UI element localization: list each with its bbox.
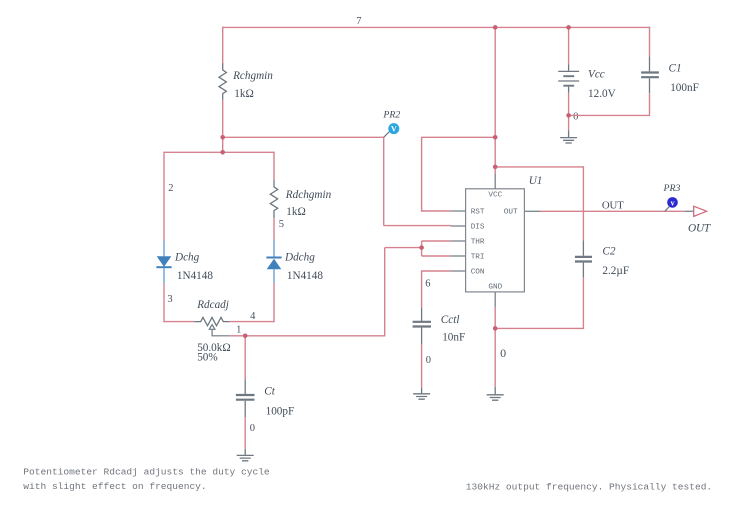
op-amp style IC U1 box — [466, 189, 525, 292]
svg-text:6: 6 — [425, 279, 430, 290]
capacitor Cctl top lead — [421, 307, 423, 321]
wire right branch middle — [273, 218, 275, 240]
pin stub TRI — [451, 255, 466, 257]
wire loop bottom left — [164, 321, 194, 323]
svg-text:THR: THR — [471, 238, 485, 246]
wire 0 net horizontal — [569, 114, 650, 116]
wire C2 column lower — [582, 277, 584, 328]
capacitor Ct bottom lead — [244, 401, 246, 418]
svg-text:OUT: OUT — [602, 199, 624, 211]
battery Vcc top lead — [568, 64, 570, 71]
battery Vcc plates — [558, 70, 579, 72]
wire top rail net 7 — [223, 26, 650, 28]
svg-text:Rdchgmin: Rdchgmin — [285, 189, 332, 201]
pin stub CON — [451, 270, 466, 272]
junction at Ct tap — [243, 334, 248, 339]
pin stub THR — [451, 240, 466, 242]
svg-text:1N4148: 1N4148 — [177, 270, 213, 282]
svg-text:100nF: 100nF — [670, 82, 699, 94]
svg-text:3: 3 — [167, 294, 172, 305]
wire C2 column upper — [582, 166, 584, 240]
svg-text:Vcc: Vcc — [588, 69, 605, 81]
junction RST tap — [493, 135, 498, 140]
svg-text:C1: C1 — [669, 62, 682, 74]
diode Dchg triangle — [157, 256, 172, 267]
diode Dchg anode lead — [163, 241, 165, 257]
diode Ddchg cathode bar — [266, 257, 281, 259]
wire DIS vertical — [383, 137, 385, 226]
svg-text:5: 5 — [279, 219, 284, 230]
pin stub OUT — [524, 210, 540, 212]
probe PR2 tail — [384, 131, 391, 138]
wire left branch upper — [163, 152, 165, 241]
junction GND net — [493, 326, 498, 331]
svg-text:130kHz output frequency. Physi: 130kHz output frequency. Physically test… — [466, 482, 712, 493]
wire top rail left drop to Rchgmin — [222, 27, 224, 64]
svg-text:100pF: 100pF — [266, 406, 295, 418]
pin stub GND — [494, 292, 496, 307]
wire VCC rail vertical — [494, 27, 496, 174]
svg-text:Cctl: Cctl — [441, 314, 460, 326]
wire right branch upper — [273, 152, 275, 181]
wire wiper riser to THR net — [384, 248, 386, 337]
wire CON branch — [422, 271, 451, 307]
svg-text:2: 2 — [168, 183, 173, 194]
pin stub DIS — [451, 225, 466, 227]
svg-text:1kΩ: 1kΩ — [286, 206, 306, 218]
capacitor C1 top lead — [649, 56, 651, 71]
capacitor C2 top lead — [582, 240, 584, 255]
diode Ddchg cathode lead — [273, 240, 275, 257]
diode Dchg cathode lead — [163, 268, 165, 283]
potentiometer Rdcadj wiper arrow — [209, 325, 229, 336]
svg-text:OUT: OUT — [504, 208, 518, 216]
output connector stub — [685, 210, 694, 212]
junction at loop top — [220, 150, 225, 155]
svg-text:2.2µF: 2.2µF — [602, 265, 629, 277]
junction at THR TRI — [419, 245, 424, 250]
svg-text:PR3: PR3 — [663, 183, 681, 194]
capacitor Ct top lead — [244, 379, 246, 394]
battery Vcc bottom lead — [568, 87, 570, 93]
probe PR3 circle — [667, 197, 678, 208]
capacitor C2 plates — [575, 257, 592, 262]
resistor Rchgmin — [219, 63, 226, 99]
junction top rail at VCC column — [493, 25, 498, 30]
capacitor Ct plates — [236, 395, 255, 400]
svg-text:OUT: OUT — [688, 223, 711, 235]
svg-text:10nF: 10nF — [442, 332, 465, 344]
wire net2 horizontal to DIS corner — [223, 136, 384, 138]
junction VCC C2 tap — [493, 165, 498, 170]
wire OUT net — [540, 210, 685, 212]
svg-text:Rdcadj: Rdcadj — [196, 299, 229, 311]
potentiometer Rdcadj body — [194, 317, 229, 325]
capacitor C1 plates — [641, 73, 659, 78]
svg-text:VCC: VCC — [488, 192, 502, 200]
wire battery drop — [568, 27, 570, 65]
svg-text:Potentiometer Rdcadj adjusts t: Potentiometer Rdcadj adjusts the duty cy… — [23, 466, 270, 477]
wire loop top — [164, 151, 274, 153]
svg-text:PR2: PR2 — [382, 110, 400, 121]
pin stub VCC — [494, 174, 496, 189]
wire right branch lower — [273, 283, 275, 322]
svg-text:0: 0 — [250, 423, 255, 434]
wire C2 bottom to GND junction — [495, 327, 584, 329]
junction at net2 tap — [220, 135, 225, 140]
wire TRI branch — [422, 247, 451, 256]
svg-text:1: 1 — [236, 325, 241, 336]
svg-text:Rchgmin: Rchgmin — [232, 70, 273, 82]
svg-text:0: 0 — [426, 355, 431, 366]
ground at Ct — [237, 449, 254, 461]
wire DIS horizontal to pin — [384, 225, 451, 227]
pin stub RST — [451, 210, 466, 212]
capacitor C1 bottom lead — [649, 78, 651, 93]
wire VCC to C2 column — [495, 166, 583, 168]
svg-text:RST: RST — [471, 208, 485, 216]
svg-text:Dchg: Dchg — [174, 251, 200, 263]
svg-text:0: 0 — [573, 112, 578, 123]
svg-text:with slight effect on frequenc: with slight effect on frequency. — [23, 481, 206, 492]
wire THR branch — [422, 241, 451, 248]
svg-text:1N4148: 1N4148 — [287, 270, 323, 282]
svg-text:12.0V: 12.0V — [588, 88, 616, 100]
capacitor Cctl bottom lead — [421, 328, 423, 345]
svg-text:Ct: Ct — [264, 386, 275, 398]
diode Ddchg triangle — [267, 259, 282, 270]
svg-text:Ddchg: Ddchg — [284, 251, 315, 263]
probe PR2 circle — [388, 123, 399, 134]
wire GND pin drop — [494, 307, 496, 387]
capacitor C2 bottom lead — [582, 263, 584, 278]
svg-text:7: 7 — [356, 16, 361, 27]
wire Ct to ground — [244, 417, 246, 449]
svg-text:4: 4 — [250, 311, 256, 322]
wire C1 bottom — [649, 93, 651, 116]
svg-text:C2: C2 — [602, 246, 615, 258]
svg-text:DIS: DIS — [471, 223, 485, 231]
probe PR3 tail — [665, 206, 670, 211]
output connector arrow — [694, 206, 707, 216]
svg-text:GND: GND — [488, 283, 502, 291]
svg-text:0: 0 — [500, 346, 506, 360]
junction battery 0 net — [566, 113, 571, 118]
ground at Vcc — [560, 130, 577, 143]
ground at Cctl — [413, 387, 430, 399]
ground at U1 GND — [487, 387, 504, 401]
svg-text:1kΩ: 1kΩ — [234, 88, 254, 100]
capacitor Cctl plates — [413, 322, 431, 327]
wire left branch lower — [163, 283, 165, 322]
wire RST branch — [422, 137, 496, 211]
junction top rail at battery — [566, 25, 571, 30]
wire battery to 0 junction — [568, 93, 570, 130]
resistor Rdchgmin — [270, 180, 277, 218]
wire Ct drop from net1 — [244, 336, 246, 379]
wire Cctl to ground — [421, 344, 423, 387]
svg-text:50%: 50% — [197, 351, 218, 363]
svg-text:U1: U1 — [529, 175, 543, 187]
wire THR junction horizontal — [385, 247, 422, 249]
svg-text:V: V — [391, 125, 397, 134]
wire Rchgmin bottom to loop top — [222, 100, 224, 153]
diode Ddchg anode lead — [273, 269, 275, 283]
diode Dchg cathode bar — [156, 266, 171, 268]
wire wiper net1 horizontal — [230, 335, 385, 337]
svg-text:TRI: TRI — [471, 253, 485, 261]
wire loop bottom right — [230, 321, 274, 323]
svg-text:CON: CON — [471, 268, 485, 276]
wire C1 drop — [649, 27, 651, 57]
